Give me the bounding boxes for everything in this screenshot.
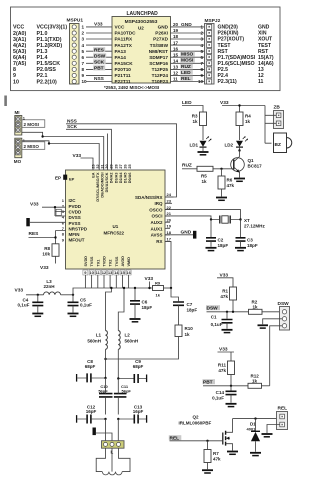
U1 left pin names [69, 198, 88, 243]
svg-text:25: 25 [128, 164, 132, 168]
net label LED [180, 70, 193, 76]
svg-text:13: 13 [108, 270, 113, 275]
svg-text:RUZ: RUZ [181, 64, 191, 70]
svg-text:TEST: TEST [258, 43, 272, 49]
IC U2 MSP430G2553 LaunchPad [112, 11, 171, 83]
capacitor C4 0,1uF [18, 295, 44, 313]
svg-text:IRLML0060PBF: IRLML0060PBF [179, 421, 212, 426]
svg-text:D7/SCL/MSO/TX: D7/SCL/MSO/TX [96, 172, 100, 202]
svg-text:11: 11 [173, 77, 178, 82]
ground bar antenna mid [93, 428, 113, 441]
svg-text:SDA/NSS/RX: SDA/NSS/RX [135, 195, 163, 200]
page edge mark 1 [4, 96, 7, 107]
diode D1 4001 [247, 419, 261, 452]
junction R1/DSW [232, 311, 234, 313]
U1 top pin numbers [91, 164, 132, 168]
svg-text:T12P25: T12P25 [152, 67, 169, 72]
svg-text:AVDD: AVDD [121, 256, 125, 267]
capacitor C11 56pF [114, 379, 131, 415]
U1 right pin numbers [167, 192, 172, 241]
svg-text:AVSS: AVSS [151, 233, 163, 238]
svg-text:P2.3(11): P2.3(11) [218, 79, 238, 85]
svg-text:R5: R5 [201, 173, 207, 178]
svg-text:SCMP16: SCMP16 [149, 61, 168, 66]
capacitor C2 18pF [206, 220, 228, 248]
svg-text:P22T11: P22T11 [115, 79, 132, 84]
wire supply bus below U1 [73, 275, 153, 295]
GND port symbol at AVSS [165, 230, 196, 239]
svg-text:PA11RX: PA11RX [115, 37, 134, 42]
net label RES [93, 47, 105, 53]
svg-text:R10: R10 [185, 326, 194, 331]
svg-text:R3: R3 [192, 113, 198, 118]
connector ZB [274, 105, 284, 129]
net label RUZ [180, 64, 193, 70]
wire MISO from MO to U1 pin D7 [22, 141, 99, 170]
U1 top pin names [91, 172, 132, 202]
svg-text:68pF: 68pF [133, 364, 144, 369]
svg-text:MFOUT: MFOUT [69, 238, 85, 243]
IC U1 MFRC522 [66, 170, 166, 269]
svg-text:GND: GND [181, 22, 192, 28]
svg-text:BZ: BZ [275, 142, 281, 148]
svg-text:U2: U2 [138, 26, 144, 31]
svg-text:REL: REL [181, 76, 191, 82]
svg-text:47k: 47k [218, 368, 226, 373]
svg-text:14(A6): 14(A6) [258, 61, 274, 67]
U1 right pin stubs [165, 197, 174, 242]
wires U2 to MSPJ2 (10 rows) [171, 27, 205, 82]
wire R9 to RX node [164, 287, 172, 289]
pin bracket loop [56, 209, 61, 215]
wire OSCI to crystal [165, 216, 211, 220]
junction C6 [134, 287, 136, 289]
wire bus to L2 [118, 288, 124, 331]
svg-text:RX: RX [156, 239, 162, 244]
svg-text:PA13: PA13 [115, 49, 127, 54]
svg-text:21: 21 [167, 211, 172, 216]
svg-text:C7: C7 [187, 302, 193, 307]
svg-text:P1.1(TXD): P1.1(TXD) [37, 37, 62, 43]
junction RX node [170, 287, 172, 289]
capacitor C3 18pF [236, 220, 258, 248]
svg-text:C4: C4 [23, 297, 29, 302]
ground bar PVSS [26, 218, 65, 226]
svg-text:ZB: ZB [274, 105, 281, 111]
svg-text:L2: L2 [125, 333, 131, 338]
svg-text:GND(20): GND(20) [218, 25, 239, 31]
svg-text:P1.5/SCK: P1.5/SCK [37, 61, 61, 67]
MSPU1 pin numbers 1-10 [82, 25, 88, 85]
svg-text:10: 10 [89, 270, 94, 275]
svg-text:RES: RES [29, 231, 40, 237]
resistor R10 1k [106, 325, 194, 359]
U1 EP pad [55, 175, 75, 182]
capacitor C9 68pF [118, 359, 146, 383]
svg-text:LAUNCHPAD: LAUNCHPAD [127, 11, 159, 17]
svg-text:30: 30 [105, 164, 109, 168]
svg-text:SVDD: SVDD [84, 256, 88, 267]
svg-text:PBT: PBT [94, 66, 104, 72]
svg-text:DSW: DSW [207, 305, 219, 311]
connector DSW [278, 301, 290, 330]
svg-text:MOSI: MOSI [181, 58, 194, 64]
svg-text:TEST: TEST [218, 43, 232, 49]
wire OSCO to crystal [165, 210, 241, 220]
svg-text:16pF: 16pF [86, 409, 97, 414]
junction C13 rail [117, 418, 119, 420]
svg-text:EA: EA [91, 172, 95, 178]
U2 right pin numbers 20-11 [173, 22, 179, 82]
wire SCK to U1 pin D5 [66, 129, 111, 170]
svg-text:29: 29 [110, 164, 114, 168]
junction R7 [206, 440, 208, 442]
U1 bottom pin number boxes 9-16 [83, 270, 132, 275]
svg-text:GND: GND [158, 25, 169, 30]
svg-text:47k: 47k [213, 457, 221, 462]
svg-text:C1: C1 [211, 315, 217, 320]
svg-text:PVSS: PVSS [69, 221, 81, 226]
ground C2 [206, 248, 217, 251]
svg-text:31: 31 [101, 164, 105, 168]
svg-text:OSCO: OSCO [149, 207, 163, 212]
svg-text:0,1uF: 0,1uF [211, 322, 223, 327]
capacitor C10 56pF [98, 378, 112, 415]
crystal XT 27.12MHz [211, 216, 265, 229]
svg-text:15: 15 [120, 270, 125, 275]
svg-text:V33: V33 [15, 288, 24, 294]
junction D1 [254, 417, 256, 419]
svg-text:C3: C3 [247, 237, 253, 242]
svg-text:P1.6(SCL)MISO: P1.6(SCL)MISO [218, 61, 255, 67]
connector MO [14, 138, 26, 164]
svg-text:V33: V33 [145, 276, 154, 282]
svg-text:4(A2): 4(A2) [13, 43, 26, 49]
svg-text:V33: V33 [94, 22, 103, 28]
svg-text:7(A5): 7(A5) [13, 61, 26, 67]
svg-text:TVDD: TVDD [103, 256, 107, 267]
U1 left pin numbers [62, 198, 65, 243]
svg-text:MISO: MISO [181, 52, 194, 58]
svg-text:T12P24: T12P24 [152, 73, 169, 78]
svg-text:AUX2: AUX2 [150, 220, 163, 225]
svg-text:0,1uF: 0,1uF [212, 396, 224, 401]
svg-text:1k: 1k [253, 304, 259, 309]
LED LD1 [190, 136, 212, 151]
inductor L1 560nH [87, 331, 107, 379]
wire V33 to U1 pin EA [81, 158, 94, 170]
svg-text:R6: R6 [227, 177, 233, 182]
svg-text:P20T10: P20T10 [115, 67, 132, 72]
svg-text:27: 27 [119, 164, 123, 168]
connector REL [277, 406, 288, 430]
net label REL [180, 76, 193, 82]
svg-text:DSW: DSW [94, 54, 106, 60]
svg-text:C6: C6 [142, 299, 148, 304]
ground Q2 source [227, 452, 238, 455]
ground C4 [32, 314, 43, 317]
junction MOSI [41, 135, 43, 137]
svg-text:U1: U1 [113, 224, 119, 229]
wire V33 to ZB and BZ [265, 106, 276, 144]
svg-text:Q2: Q2 [193, 415, 200, 420]
svg-text:AUX1: AUX1 [150, 226, 163, 231]
svg-text:R11: R11 [218, 362, 227, 367]
junction PBT [230, 385, 232, 387]
MSPJ2 right labels [218, 25, 256, 86]
svg-text:PBT: PBT [203, 379, 213, 385]
svg-text:DVSS: DVSS [69, 215, 81, 220]
junction V33 bus [148, 287, 150, 289]
pin mapping table column A [13, 25, 26, 86]
net label MISO [180, 51, 195, 57]
svg-text:P1.4: P1.4 [37, 55, 48, 61]
svg-text:EP: EP [69, 177, 75, 182]
svg-text:LD2: LD2 [225, 142, 234, 147]
svg-text:3(A1): 3(A1) [13, 37, 26, 43]
svg-text:68pF: 68pF [85, 364, 96, 369]
wire V33 to L3 [26, 294, 44, 296]
net label REL (gate) [169, 435, 182, 441]
ground R7 [202, 470, 213, 473]
svg-text:10: 10 [198, 79, 204, 84]
svg-text:18: 18 [167, 230, 172, 235]
svg-text:*2553, 2492 MISO<->MOSI: *2553, 2492 MISO<->MOSI [104, 85, 159, 90]
svg-text:0,1uF: 0,1uF [80, 303, 92, 308]
transistor Q2 IRLML0060PBF [179, 415, 233, 451]
svg-text:R8: R8 [44, 246, 50, 251]
wire V33 to U1 PVDD [42, 207, 66, 216]
svg-text:1k: 1k [202, 179, 208, 184]
svg-text:L1: L1 [96, 333, 102, 338]
wire V33 to R1 [217, 278, 233, 287]
junction C12 rail [104, 418, 106, 420]
svg-text:V33: V33 [40, 265, 49, 271]
wire DSW pin2 to ground [263, 319, 283, 325]
junction MISO [48, 142, 50, 144]
wire RUZ to R5 [182, 168, 197, 170]
svg-text:19: 19 [173, 28, 179, 33]
wire RX pin to node [165, 242, 171, 289]
svg-text:9: 9 [13, 73, 16, 79]
MSPJ2 pin numbers 1-10 [198, 25, 204, 85]
svg-text:MFIN: MFIN [69, 232, 80, 237]
svg-text:BC817: BC817 [248, 164, 263, 169]
wire LED to R3 [182, 106, 203, 113]
svg-text:D1/A5: D1/A5 [124, 173, 128, 184]
junction V33/R4 [238, 104, 240, 106]
connector L [102, 441, 125, 455]
MO label frame 2 MISO [22, 142, 45, 150]
net label DSW [206, 305, 220, 311]
wire rails to connector L [106, 419, 119, 441]
U1 right pin names [135, 195, 163, 244]
svg-text:18: 18 [173, 34, 179, 39]
svg-text:27.12MHz: 27.12MHz [244, 223, 265, 228]
svg-text:IRQ: IRQ [154, 201, 163, 206]
svg-text:47k: 47k [220, 294, 228, 299]
capacitor C1 0,1uF [211, 312, 233, 329]
junction RES [54, 236, 56, 238]
svg-text:56pF: 56pF [122, 388, 132, 393]
svg-text:P21T11: P21T11 [115, 73, 132, 78]
resistor R9 1k [153, 280, 164, 297]
svg-text:P26XI: P26XI [155, 31, 168, 36]
svg-text:12: 12 [102, 270, 107, 275]
svg-text:PA15CK: PA15CK [115, 61, 134, 66]
connector MSPJ2 [205, 18, 221, 84]
svg-text:XT: XT [244, 218, 250, 223]
transistor Q1 BC817 [231, 151, 262, 178]
svg-text:C5: C5 [80, 297, 86, 302]
svg-text:D3/A3: D3/A3 [114, 173, 118, 184]
svg-text:XOUT: XOUT [258, 37, 273, 43]
svg-text:15: 15 [173, 52, 179, 57]
svg-text:EP: EP [55, 175, 61, 180]
svg-text:R1: R1 [222, 288, 228, 293]
svg-text:P2.2(10): P2.2(10) [37, 79, 58, 85]
svg-text:19: 19 [167, 224, 172, 229]
junction C9 rail [117, 377, 119, 379]
svg-text:REL: REL [278, 406, 288, 412]
junction bus L1 [110, 287, 112, 289]
svg-text:GND: GND [258, 25, 270, 31]
svg-text:20: 20 [167, 217, 172, 222]
svg-text:Q1: Q1 [248, 158, 255, 163]
capacitor C6 18pF [130, 288, 152, 318]
svg-text:MFRC522: MFRC522 [104, 230, 125, 235]
junction crystal left [210, 218, 212, 220]
svg-text:GND: GND [181, 230, 192, 236]
U2 right pin names [149, 25, 169, 85]
svg-text:MI: MI [15, 110, 20, 115]
svg-text:D2/A4: D2/A4 [119, 172, 123, 184]
U2 left pin names [115, 25, 137, 85]
wire RES to NRSTPD and R8 [29, 231, 66, 264]
svg-text:560nH: 560nH [87, 338, 101, 343]
resistor R2 1k [249, 299, 283, 314]
svg-text:1k: 1k [185, 332, 191, 337]
svg-text:NMI/RST: NMI/RST [149, 49, 168, 54]
svg-text:R4: R4 [245, 113, 251, 118]
wire REL pin2 to ground [267, 425, 280, 434]
far right label column [258, 25, 274, 86]
pin mapping table column B [37, 25, 68, 86]
svg-text:22nH: 22nH [43, 284, 54, 289]
ground C3 [235, 248, 246, 251]
svg-text:13: 13 [173, 65, 179, 70]
wires MSPU1 to U2 (10 rows) [86, 27, 112, 82]
wire PBT [203, 385, 248, 387]
svg-text:560nH: 560nH [125, 338, 139, 343]
svg-text:D6/ADO/MOSI: D6/ADO/MOSI [101, 173, 105, 198]
svg-text:D5/A1/SCK: D5/A1/SCK [105, 172, 109, 192]
svg-text:47k: 47k [227, 183, 235, 188]
ground C6 [130, 319, 141, 322]
svg-text:1k: 1k [245, 119, 251, 124]
junction R5/R6 [220, 168, 222, 170]
svg-text:TS/SBW: TS/SBW [150, 43, 169, 48]
svg-text:MSP430G2553: MSP430G2553 [125, 19, 158, 25]
resistor R12 1k [248, 373, 270, 388]
svg-text:LED: LED [181, 70, 191, 76]
junction C5 [72, 294, 74, 296]
resistor R1 47k [220, 287, 236, 312]
junction C8 rail [104, 377, 106, 379]
svg-text:VMID: VMID [127, 257, 131, 267]
wire bus to L1 [106, 288, 112, 331]
wire R5 to Q1 base [213, 168, 234, 170]
svg-text:P1.7(SDA)MOSI: P1.7(SDA)MOSI [218, 55, 256, 61]
svg-text:PVDD: PVDD [69, 204, 82, 209]
ground REL [262, 434, 273, 437]
capacitor C13 16pF [118, 404, 146, 423]
svg-text:P27XD: P27XD [153, 37, 168, 42]
buzzer BZ [274, 133, 292, 153]
junction LD2/Q1 [238, 149, 240, 151]
net label MOSI [180, 58, 195, 64]
svg-text:TVSS: TVSS [90, 256, 94, 266]
capacitor C12 16pF [77, 404, 106, 423]
inductor L3 22nH [43, 279, 73, 295]
svg-text:I2C: I2C [69, 198, 77, 203]
svg-text:18pF: 18pF [247, 243, 258, 248]
net label PBT [93, 65, 105, 71]
capacitor C14 0,1uF [212, 386, 236, 403]
svg-text:TVSS: TVSS [115, 256, 119, 266]
net label SCK [93, 59, 106, 65]
svg-text:LD1: LD1 [190, 142, 199, 147]
svg-text:P2.4: P2.4 [218, 73, 229, 79]
ground DSW [258, 325, 269, 328]
net label DSW [93, 53, 106, 59]
svg-text:VCC: VCC [13, 25, 24, 31]
svg-text:11: 11 [258, 79, 264, 85]
svg-text:VCC: VCC [115, 25, 126, 30]
svg-text:R9: R9 [155, 280, 161, 285]
junction R10 left rail [104, 358, 106, 360]
svg-text:15(A7): 15(A7) [258, 55, 274, 61]
svg-text:23: 23 [91, 164, 95, 168]
wire DSW pin3 down [270, 326, 283, 386]
svg-text:56pF: 56pF [98, 388, 108, 393]
svg-text:1k: 1k [192, 119, 198, 124]
svg-text:MO: MO [14, 159, 22, 164]
MI label frame 2 MOSI [22, 120, 45, 128]
svg-text:16: 16 [126, 270, 131, 275]
resistor R8 10k [42, 244, 59, 257]
svg-text:18pF: 18pF [187, 307, 198, 312]
svg-text:18pF: 18pF [142, 305, 153, 310]
junction C1 [226, 311, 228, 313]
resistor R6 47k [218, 169, 235, 197]
svg-text:10k: 10k [42, 252, 50, 257]
svg-text:24: 24 [167, 192, 172, 197]
capacitor C7 18pF [171, 288, 197, 325]
wire V33 to R4 and ZB [222, 106, 265, 113]
net label PBT [203, 379, 216, 385]
svg-text:28: 28 [114, 164, 118, 168]
svg-text:P1.2(RXD): P1.2(RXD) [37, 43, 63, 49]
ground C5 [68, 314, 79, 317]
svg-text:26: 26 [124, 164, 128, 168]
capacitor C5 0,1uF [68, 295, 93, 313]
svg-text:32: 32 [96, 164, 100, 168]
svg-text:1k: 1k [252, 378, 258, 383]
svg-text:PA14: PA14 [115, 55, 127, 60]
svg-text:20: 20 [173, 22, 179, 27]
ground C1 [222, 330, 233, 333]
